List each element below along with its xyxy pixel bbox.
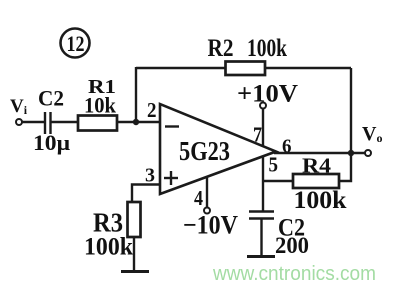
resistor R3: [128, 202, 141, 237]
svg-text:+10V: +10V: [237, 81, 298, 108]
svg-text:R4: R4: [302, 154, 332, 178]
wire pin 5 down to C2: [262, 156, 264, 211]
wire input to C2: [22, 121, 44, 123]
svg-text:100k: 100k: [247, 35, 287, 62]
op-amp U1 5G23: [160, 104, 276, 194]
wire output junction down to R4: [339, 153, 351, 181]
svg-text:200: 200: [275, 233, 309, 258]
ground (R3): [121, 270, 149, 273]
svg-text:3: 3: [145, 165, 155, 187]
svg-text:100k: 100k: [294, 187, 347, 214]
wire R4 to pin 5: [263, 180, 293, 182]
resistor R1: [78, 116, 117, 131]
terminal Vi: [16, 119, 22, 125]
node junction at output: [348, 150, 354, 156]
wire output to Vo: [274, 152, 365, 154]
wire pin 3 L-shape: [132, 185, 160, 203]
resistor R2: [226, 62, 266, 76]
wire R3 to ground: [133, 237, 135, 271]
svg-text:4: 4: [194, 186, 203, 210]
wire feedback right vertical: [350, 68, 352, 153]
node junction at inverting input: [133, 119, 139, 125]
svg-text:5: 5: [269, 153, 279, 177]
resistor R4: [293, 174, 339, 188]
ground (C2): [247, 255, 275, 258]
svg-text:www.cntronics.com: www.cntronics.com: [212, 263, 376, 285]
terminal -10V: [204, 208, 210, 214]
svg-text:12: 12: [67, 31, 85, 56]
wire R1 to op-amp input: [117, 121, 160, 123]
svg-text:10k: 10k: [84, 93, 117, 118]
wire C2 to ground: [260, 219, 262, 257]
figure number 12: [61, 29, 90, 58]
terminal Vo: [365, 150, 371, 156]
wire feedback left vertical: [135, 67, 137, 122]
svg-text:R2: R2: [208, 35, 234, 62]
wire C2 to R1: [51, 121, 79, 123]
svg-text:5G23: 5G23: [179, 136, 230, 166]
capacitor C2 (input, 10u): [45, 112, 51, 134]
wire pin 7 to +10V terminal: [262, 108, 264, 146]
svg-text:100k: 100k: [84, 234, 133, 261]
wire feedback top horizontal: [136, 67, 351, 69]
svg-text:10μ: 10μ: [33, 130, 71, 155]
wire pin 4 to -10V terminal: [206, 177, 208, 208]
svg-text:−10V: −10V: [183, 211, 238, 240]
terminal +10V: [260, 103, 266, 109]
svg-text:2: 2: [147, 98, 157, 122]
capacitor C2 (output, 200): [249, 212, 274, 219]
svg-text:7: 7: [253, 123, 262, 147]
svg-text:C2: C2: [38, 86, 64, 111]
